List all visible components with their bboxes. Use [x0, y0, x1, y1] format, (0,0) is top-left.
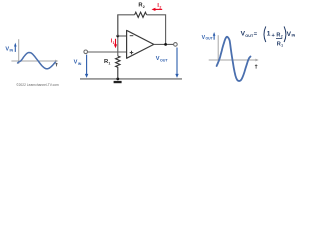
parenthesis left: [264, 26, 266, 42]
junction dot node A: [116, 35, 119, 38]
svg-text:1: 1: [267, 31, 271, 38]
arrow Vout (blue down): [175, 48, 178, 78]
ground symbol: [114, 81, 122, 83]
axis t (input graph): [11, 60, 58, 63]
circuit: non-inverting amplifier: [74, 3, 182, 84]
label R1: [104, 59, 110, 65]
svg-text:©2022 Learnchannel-TV.com: ©2022 Learnchannel-TV.com: [16, 82, 59, 87]
terminal output: [174, 43, 178, 47]
svg-text:2: 2: [281, 35, 283, 39]
arrow Vin amplitude (blue up arrow): [14, 43, 17, 52]
svg-text:OUT: OUT: [245, 34, 254, 38]
svg-text:IN: IN: [292, 34, 296, 38]
svg-text:IN: IN: [78, 62, 82, 66]
arrow Vin (blue down): [85, 55, 88, 78]
svg-text:2: 2: [143, 5, 145, 9]
axis t (output graph): [209, 59, 259, 62]
svg-text:1: 1: [113, 41, 115, 45]
label R2: [138, 3, 144, 9]
resistor R2: [135, 12, 147, 17]
svg-text:OUT: OUT: [206, 37, 214, 41]
junction dot at rail / R1: [116, 78, 119, 81]
svg-text:2: 2: [159, 6, 161, 10]
parenthesis right: [284, 26, 286, 42]
axis Y (output graph): [217, 35, 219, 64]
arrow I1 (red down): [114, 39, 117, 49]
label t (input graph): [55, 63, 57, 67]
curve output sine: [217, 37, 251, 81]
wire feedback left vertical + top: [118, 15, 135, 36]
node Vin-graph: input signal graph: [5, 39, 58, 69]
wire node A vertical (feedback to R1): [117, 15, 119, 56]
arrow I2 (red left): [152, 8, 163, 11]
pin plus: [130, 51, 134, 55]
op-amp U1: [127, 30, 154, 58]
svg-text:IN: IN: [10, 48, 14, 52]
curve input sine: [18, 53, 56, 69]
label I2: [157, 3, 161, 9]
label Vout (output graph): [202, 35, 214, 41]
resistor R1: [116, 56, 120, 79]
label Vin (circuit): [74, 60, 82, 66]
junction dot output/feedback: [164, 43, 167, 46]
wire ground rail: [80, 78, 182, 80]
svg-text:OUT: OUT: [160, 58, 168, 62]
wire output: [154, 43, 174, 45]
formula Vout = (1 + R2/R1) Vin: [241, 26, 296, 47]
wire feedback right + down to output: [147, 15, 166, 45]
arrow Vout amplitude (blue up arrow): [213, 32, 216, 40]
label Vout (circuit): [156, 56, 169, 62]
label Vin (input graph): [5, 47, 13, 53]
terminal input: [84, 50, 88, 54]
label I1: [111, 38, 115, 44]
label t (output graph): [255, 64, 258, 68]
svg-text:1: 1: [108, 61, 110, 65]
pin minus: [130, 35, 134, 37]
node Vout-graph: output signal graph: [202, 32, 259, 81]
svg-text:1: 1: [281, 43, 283, 47]
wire node A to inverting input: [118, 35, 127, 37]
axis Y (input graph): [18, 39, 20, 64]
wire input to +: [88, 51, 127, 53]
